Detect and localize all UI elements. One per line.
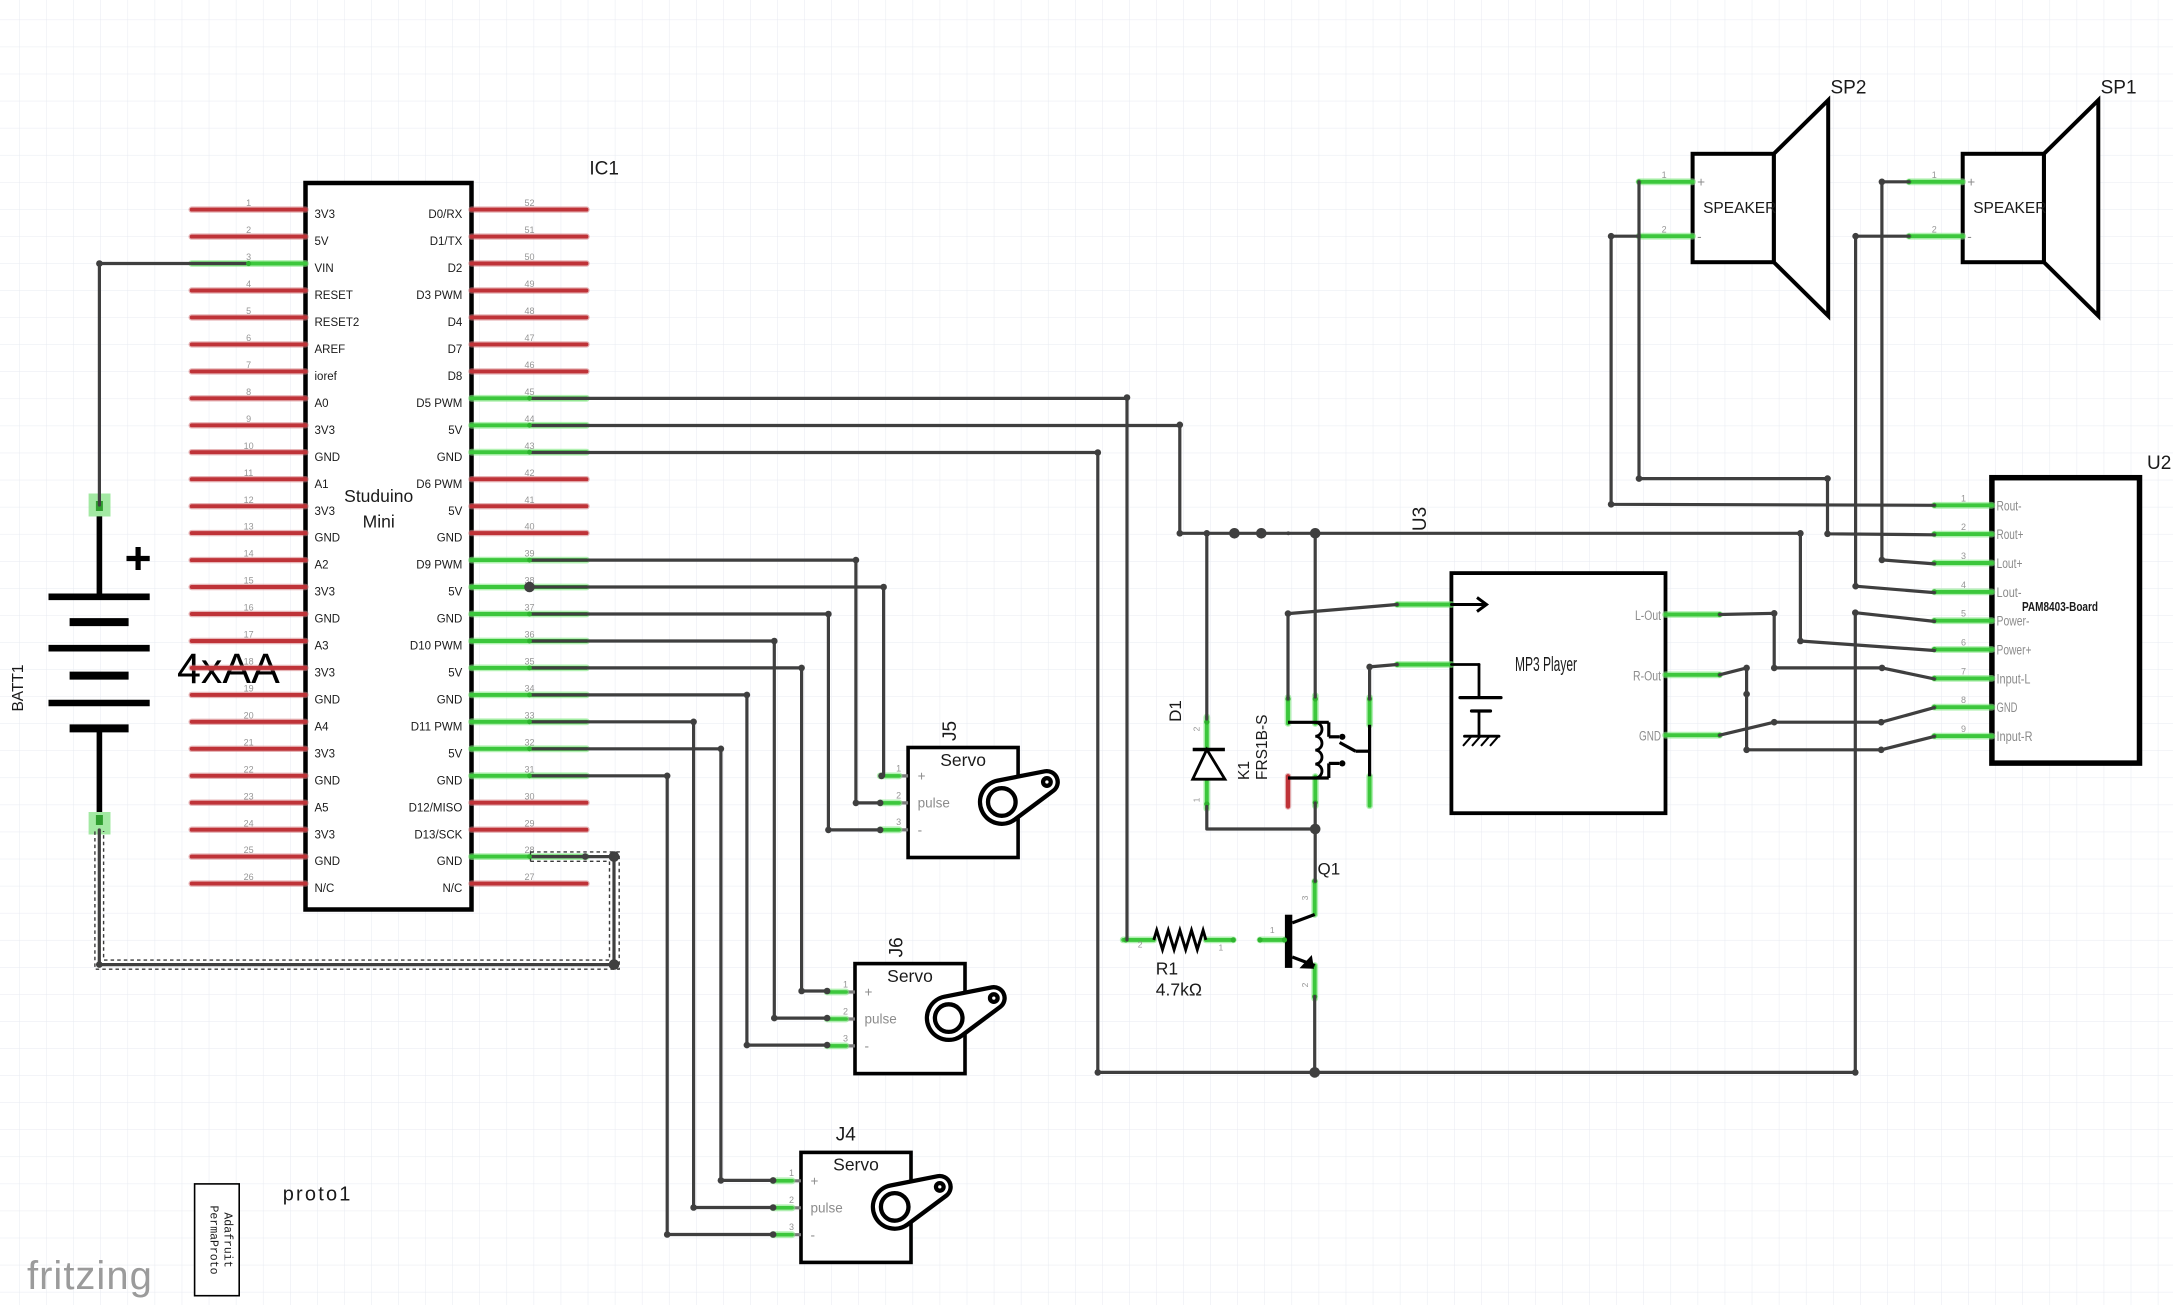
wire battery+ to VIN (96, 260, 249, 505)
svg-text:+: + (1697, 175, 1705, 190)
IC1 right pin 46 D8 (448, 360, 587, 383)
svg-text:35: 35 (524, 657, 534, 667)
svg-text:FRS1B-S: FRS1B-S (1254, 715, 1271, 780)
svg-text:GND: GND (315, 856, 341, 868)
svg-text:Q1: Q1 (1318, 860, 1341, 879)
svg-text:GND: GND (315, 533, 341, 545)
wire R-Out to Input-R (1720, 665, 1935, 753)
svg-text:A1: A1 (315, 479, 329, 491)
svg-text:J6: J6 (887, 937, 908, 957)
wire MP3 GND to U2 GND (1720, 708, 1935, 736)
IC1 left pin 20 A4 (192, 710, 329, 733)
IC1 left pin 21 3V3 (192, 737, 335, 760)
speaker SP1 (1907, 100, 2099, 316)
svg-text:RESET: RESET (315, 290, 353, 302)
wire 5V pin32 to J4+ (530, 746, 777, 1184)
svg-text:2: 2 (1662, 225, 1667, 235)
IC1 right pin 48 D4 (448, 306, 587, 329)
svg-text:Servo: Servo (833, 1155, 879, 1175)
wire L-Out to Input-L (1720, 610, 1935, 679)
svg-text:N/C: N/C (315, 883, 335, 895)
svg-text:3V3: 3V3 (315, 668, 335, 680)
svg-text:GND: GND (437, 614, 463, 626)
wire bus to D1 (1205, 533, 1208, 719)
svg-text:47: 47 (524, 333, 534, 343)
IC1 left pin 13 GND (192, 522, 340, 545)
svg-text:7: 7 (1961, 666, 1966, 676)
svg-text:4.7kΩ: 4.7kΩ (1156, 980, 1202, 1000)
IC1 left pin 15 3V3 (192, 576, 335, 599)
svg-text:5V: 5V (448, 425, 462, 437)
IC1 right pin 35 5V (448, 657, 586, 680)
svg-text:4: 4 (1961, 580, 1966, 590)
svg-text:3V3: 3V3 (315, 425, 335, 437)
svg-text:Power+: Power+ (1997, 643, 2032, 658)
svg-text:Rout+: Rout+ (1997, 527, 2024, 542)
wire SP2- to Rout- (1608, 233, 1935, 508)
svg-text:8: 8 (1961, 695, 1966, 705)
svg-text:SP1: SP1 (2101, 78, 2137, 99)
svg-text:33: 33 (524, 710, 534, 720)
svg-text:U3: U3 (1410, 507, 1431, 531)
IC1 left pin 1 3V3 (192, 198, 335, 221)
svg-text:1: 1 (789, 1168, 794, 1178)
amplifier board U2 PAM8403 (1932, 478, 2140, 763)
svg-text:D6 PWM: D6 PWM (416, 479, 462, 491)
IC1 right pin 43 GND (437, 441, 587, 464)
svg-text:A2: A2 (315, 560, 329, 572)
IC1 right pin 41 5V (448, 495, 586, 518)
svg-text:PAM8403-Board: PAM8403-Board (2022, 600, 2098, 614)
transistor Q1 (1257, 879, 1317, 999)
svg-text:GND: GND (437, 533, 463, 545)
servo connector J6 (827, 964, 1005, 1074)
servo connector J5 (880, 748, 1058, 858)
IC1 right pin 31 GND (437, 764, 587, 787)
svg-text:43: 43 (524, 441, 534, 451)
svg-text:52: 52 (524, 198, 534, 208)
svg-text:SP2: SP2 (1831, 78, 1867, 99)
IC1 left pin 11 A1 (192, 468, 329, 491)
svg-text:1: 1 (1932, 170, 1937, 180)
svg-text:18: 18 (244, 657, 254, 667)
IC1 left pin 2 5V (192, 225, 329, 248)
svg-text:Input-L: Input-L (1997, 671, 2031, 686)
svg-text:SPEAKER: SPEAKER (1973, 200, 2046, 217)
wire relay coil to collector node (1310, 803, 1321, 881)
IC1 right pin 30 D12/MISO (409, 791, 587, 814)
battery BATT1 (49, 516, 150, 812)
svg-text:D8: D8 (448, 371, 463, 383)
IC1 right pin 28 GND (437, 845, 587, 868)
svg-text:2: 2 (1138, 940, 1143, 950)
svg-text:GND: GND (1639, 729, 1661, 744)
svg-text:3: 3 (1961, 551, 1966, 561)
svg-text:GND: GND (437, 775, 463, 787)
svg-text:A4: A4 (315, 721, 330, 733)
svg-text:L-Out: L-Out (1635, 608, 1661, 623)
svg-text:31: 31 (524, 764, 534, 774)
svg-text:D12/MISO: D12/MISO (409, 802, 463, 814)
svg-text:2: 2 (246, 225, 251, 235)
svg-text:3: 3 (789, 1222, 794, 1232)
IC1 left pin 16 GND (192, 603, 340, 626)
IC1 right pin 50 D2 (448, 252, 587, 275)
servo connector J4 (773, 1152, 951, 1262)
svg-text:PermaProto: PermaProto (207, 1205, 220, 1274)
label R1 4.7kOhm (1156, 959, 1202, 1000)
svg-text:+: + (1967, 175, 1975, 190)
wire bus to relay coil (1314, 533, 1317, 697)
IC1 right pin 33 D11 PWM (411, 710, 587, 733)
svg-text:IC1: IC1 (589, 159, 619, 180)
IC1 right pin 47 D7 (448, 333, 587, 356)
svg-text:50: 50 (524, 252, 534, 262)
svg-text:D0/RX: D0/RX (428, 209, 462, 221)
svg-text:22: 22 (244, 764, 254, 774)
svg-text:23: 23 (244, 791, 254, 801)
svg-text:49: 49 (524, 279, 534, 289)
wire D9 pin39 to J5 pulse (530, 557, 884, 806)
svg-text:Power-: Power- (1997, 614, 2030, 629)
svg-text:1: 1 (1192, 797, 1202, 802)
ground symbol (chassis) (1464, 736, 1500, 745)
svg-text:44: 44 (524, 414, 534, 424)
node VIN terminal (246, 261, 251, 266)
IC1 right pin 37 GND (437, 603, 587, 626)
svg-text:GND: GND (315, 695, 341, 707)
svg-text:J4: J4 (836, 1125, 857, 1146)
svg-text:+: + (811, 1174, 819, 1189)
svg-text:11: 11 (244, 468, 253, 478)
IC1 connected pin terminals (527, 396, 532, 859)
svg-text:Studuino: Studuino (344, 486, 413, 506)
svg-text:ioref: ioref (315, 371, 338, 383)
IC1 right pin 34 GND (437, 684, 587, 707)
svg-text:48: 48 (524, 306, 534, 316)
IC1 right pin 44 5V (448, 414, 586, 437)
IC1 left pin 12 3V3 (192, 495, 335, 518)
svg-text:GND: GND (437, 452, 463, 464)
wire D10 pin36 to J6 pulse (530, 638, 831, 1022)
wire Q1 emitter to GND rail (1309, 997, 1320, 1078)
label K1 FRS1B-S (1236, 715, 1271, 780)
svg-text:Lout+: Lout+ (1997, 556, 2023, 571)
wire GND pin34 to J6- (530, 692, 831, 1049)
svg-text:3: 3 (1300, 895, 1310, 900)
IC1 left pin 7 ioref (192, 360, 338, 383)
MP3 internal capacitor (1451, 665, 1501, 737)
svg-text:10: 10 (244, 441, 254, 451)
IC1 right pin 27 N/C (442, 872, 586, 895)
IC1 right pin 45 D5 PWM (416, 387, 586, 410)
svg-text:pulse: pulse (865, 1012, 897, 1027)
MP3 player U3 (1395, 573, 1723, 813)
svg-text:3V3: 3V3 (315, 829, 335, 841)
svg-text:46: 46 (524, 360, 534, 370)
svg-text:3V3: 3V3 (315, 587, 335, 599)
svg-text:pulse: pulse (918, 796, 950, 811)
svg-text:5: 5 (246, 306, 251, 316)
svg-text:D4: D4 (448, 317, 463, 329)
svg-text:A3: A3 (315, 641, 329, 653)
IC1 left pin 25 GND (192, 845, 340, 868)
wire relay common to MP3 input2 (1366, 664, 1397, 699)
svg-text:29: 29 (524, 818, 534, 828)
svg-text:16: 16 (244, 603, 254, 613)
wire 5V pin35 to J6+ (530, 665, 831, 995)
svg-text:39: 39 (524, 549, 534, 559)
IC1 left pin 23 A5 (192, 791, 329, 814)
IC IC1 Studuino Mini (306, 183, 472, 910)
svg-text:-: - (918, 823, 923, 838)
svg-text:20: 20 (244, 710, 254, 720)
IC1 right pin 38 5V (448, 576, 586, 599)
IC1 left pin 4 RESET (192, 279, 353, 302)
svg-text:Input-R: Input-R (1997, 729, 2033, 744)
speaker SP2 (1636, 100, 1828, 316)
svg-text:14: 14 (244, 549, 254, 559)
svg-text:28: 28 (524, 845, 534, 855)
IC1 left pin 6 AREF (192, 333, 345, 356)
svg-text:GND: GND (437, 856, 463, 868)
svg-text:Servo: Servo (887, 966, 933, 986)
svg-text:2: 2 (1300, 982, 1310, 987)
wire D11 pin33 to J4 pulse (530, 719, 777, 1211)
svg-text:-: - (1697, 229, 1702, 244)
svg-text:1: 1 (1270, 925, 1275, 935)
IC1 left pin 22 GND (192, 764, 340, 787)
svg-text:36: 36 (524, 630, 534, 640)
svg-text:9: 9 (1961, 724, 1966, 734)
svg-text:VIN: VIN (315, 263, 334, 275)
svg-text:15: 15 (244, 576, 254, 586)
svg-text:51: 51 (524, 225, 534, 235)
diode D1 (1192, 717, 1225, 809)
svg-text:2: 2 (1932, 225, 1937, 235)
IC1 left pin 17 A3 (192, 630, 329, 653)
wire GND pin31 to J4- (530, 773, 777, 1238)
svg-text:A0: A0 (315, 398, 329, 410)
svg-text:45: 45 (524, 387, 534, 397)
label Studuino Mini (344, 486, 413, 532)
svg-text:6: 6 (1961, 638, 1966, 648)
svg-text:27: 27 (524, 872, 534, 882)
resistor R1 4.7k (1123, 930, 1236, 952)
svg-text:Servo: Servo (940, 750, 986, 770)
svg-text:9: 9 (246, 414, 251, 424)
wire 5V to bus and Power+ (530, 422, 1935, 651)
svg-text:5V: 5V (448, 506, 462, 518)
IC1 left pin 24 3V3 (192, 818, 335, 841)
IC1 right pin 49 D3 PWM (416, 279, 586, 302)
svg-text:MP3 Player: MP3 Player (1515, 654, 1577, 676)
IC1 left pin 19 GND (192, 684, 340, 707)
wire GND pin37 to J5- (530, 611, 884, 834)
svg-text:2: 2 (1192, 726, 1202, 731)
IC1 right pin 51 D1/TX (430, 225, 587, 248)
svg-text:5V: 5V (448, 668, 462, 680)
svg-text:40: 40 (524, 522, 534, 532)
svg-text:RESET2: RESET2 (315, 317, 360, 329)
svg-text:30: 30 (524, 791, 534, 801)
battery negative terminal (89, 812, 111, 835)
IC1 right pin 39 D9 PWM (416, 549, 586, 572)
svg-text:proto1: proto1 (283, 1184, 353, 1206)
svg-text:+: + (918, 769, 926, 784)
svg-text:Lout-: Lout- (1997, 585, 2022, 600)
wire SP1- to Lout- (1852, 233, 1934, 593)
IC1 right pin 42 D6 PWM (416, 468, 586, 491)
svg-text:17: 17 (244, 630, 254, 640)
svg-text:+: + (865, 985, 873, 1000)
breadboard label proto1 (Adafruit PermaProto) (195, 1184, 240, 1296)
svg-text:21: 21 (244, 737, 254, 747)
wire relay NO to MP3 play (1285, 605, 1398, 700)
svg-text:K1: K1 (1236, 761, 1253, 780)
svg-text:AREF: AREF (315, 344, 346, 356)
svg-text:34: 34 (524, 684, 534, 694)
svg-text:BATT1: BATT1 (10, 664, 27, 711)
wire SP1+ to Lout+ (1879, 179, 1935, 564)
svg-text:R1: R1 (1156, 959, 1178, 979)
svg-text:3V3: 3V3 (315, 506, 335, 518)
svg-text:D5 PWM: D5 PWM (416, 398, 462, 410)
svg-text:5V: 5V (448, 748, 462, 760)
svg-text:D10 PWM: D10 PWM (410, 641, 462, 653)
svg-text:5: 5 (1961, 609, 1966, 619)
svg-text:Adafruit: Adafruit (221, 1212, 234, 1267)
svg-text:pulse: pulse (811, 1201, 843, 1216)
IC1 right pin 29 D13/SCK (414, 818, 586, 841)
svg-text:D3 PWM: D3 PWM (416, 290, 462, 302)
IC1 left pin 3 VIN (192, 252, 334, 275)
svg-text:SPEAKER: SPEAKER (1703, 200, 1776, 217)
IC1 left pin 8 A0 (192, 387, 329, 410)
svg-text:Mini: Mini (363, 512, 395, 532)
IC1 left pin 14 A2 (192, 549, 329, 572)
svg-text:J5: J5 (940, 721, 961, 741)
relay K1 FRS1B-S (1285, 696, 1372, 807)
wire 5V pin38 to J5+ (524, 582, 887, 780)
svg-text:3V3: 3V3 (315, 209, 335, 221)
svg-text:5V: 5V (315, 236, 329, 248)
svg-text:GND: GND (315, 775, 341, 787)
svg-text:3: 3 (246, 252, 251, 262)
svg-text:GND: GND (315, 452, 341, 464)
svg-text:1: 1 (1961, 493, 1966, 503)
svg-text:42: 42 (524, 468, 534, 478)
svg-text:GND: GND (315, 614, 341, 626)
svg-text:1: 1 (1662, 170, 1667, 180)
svg-text:fritzing: fritzing (27, 1254, 153, 1298)
svg-text:26: 26 (244, 872, 254, 882)
svg-text:1: 1 (896, 763, 901, 773)
svg-text:-: - (811, 1227, 816, 1242)
svg-text:8: 8 (246, 387, 251, 397)
svg-text:25: 25 (244, 845, 254, 855)
wire GND to bottom rail and Power- (530, 449, 1935, 1075)
svg-text:-: - (865, 1039, 870, 1054)
IC1 left pin 26 N/C (192, 872, 335, 895)
IC1 left pin 10 GND (192, 441, 340, 464)
svg-text:D2: D2 (448, 263, 463, 275)
svg-text:D1: D1 (1166, 700, 1185, 722)
junction 5V bus bendpoints (1204, 528, 1321, 539)
svg-text:1: 1 (843, 979, 848, 989)
svg-text:D11 PWM: D11 PWM (411, 721, 463, 733)
svg-text:41: 41 (524, 495, 534, 505)
svg-text:-: - (1967, 229, 1972, 244)
svg-text:D7: D7 (448, 344, 463, 356)
wire GND pin28 to battery- (selected, dashed outline) (95, 830, 619, 970)
IC1 left pin 18 3V3 (192, 657, 335, 680)
svg-text:12: 12 (244, 495, 254, 505)
wire D1 to Q1 collector node (1207, 807, 1315, 830)
svg-text:3V3: 3V3 (315, 748, 335, 760)
IC1 left pin 5 RESET2 (192, 306, 360, 329)
svg-text:5V: 5V (448, 587, 462, 599)
svg-text:A5: A5 (315, 802, 329, 814)
svg-text:19: 19 (244, 684, 254, 694)
svg-text:32: 32 (524, 737, 534, 747)
svg-text:24: 24 (244, 818, 254, 828)
IC1 left pin 9 3V3 (192, 414, 335, 437)
svg-text:3: 3 (843, 1033, 848, 1043)
svg-text:D13/SCK: D13/SCK (414, 829, 462, 841)
svg-text:D1/TX: D1/TX (430, 236, 463, 248)
IC1 right pin 36 D10 PWM (410, 630, 587, 653)
svg-text:GND: GND (1997, 700, 2018, 715)
battery positive terminal (89, 494, 111, 517)
svg-text:Rout-: Rout- (1997, 498, 2022, 513)
svg-text:6: 6 (246, 333, 251, 343)
svg-text:2: 2 (843, 1006, 848, 1016)
svg-text:N/C: N/C (442, 883, 462, 895)
svg-text:1: 1 (1219, 943, 1224, 953)
wire D5 PWM to R1 (530, 394, 1131, 940)
IC1 right pin 32 5V (448, 737, 586, 760)
svg-text:D9 PWM: D9 PWM (416, 560, 462, 572)
svg-text:U2: U2 (2147, 453, 2171, 474)
svg-text:2: 2 (789, 1195, 794, 1205)
svg-text:3: 3 (896, 817, 901, 827)
svg-text:2: 2 (896, 790, 901, 800)
MP3 play arrow (1451, 598, 1486, 612)
svg-text:R-Out: R-Out (1633, 668, 1661, 683)
wire SP2+ to Rout+ (1636, 182, 1935, 537)
svg-text:37: 37 (524, 603, 534, 613)
IC1 right pin 40 GND (437, 522, 587, 545)
svg-text:GND: GND (437, 695, 463, 707)
svg-text:1: 1 (246, 198, 251, 208)
svg-text:4: 4 (246, 279, 251, 289)
IC1 right pin 52 D0/RX (428, 198, 586, 221)
svg-text:7: 7 (246, 360, 251, 370)
svg-text:2: 2 (1961, 522, 1966, 532)
svg-text:13: 13 (244, 522, 254, 532)
